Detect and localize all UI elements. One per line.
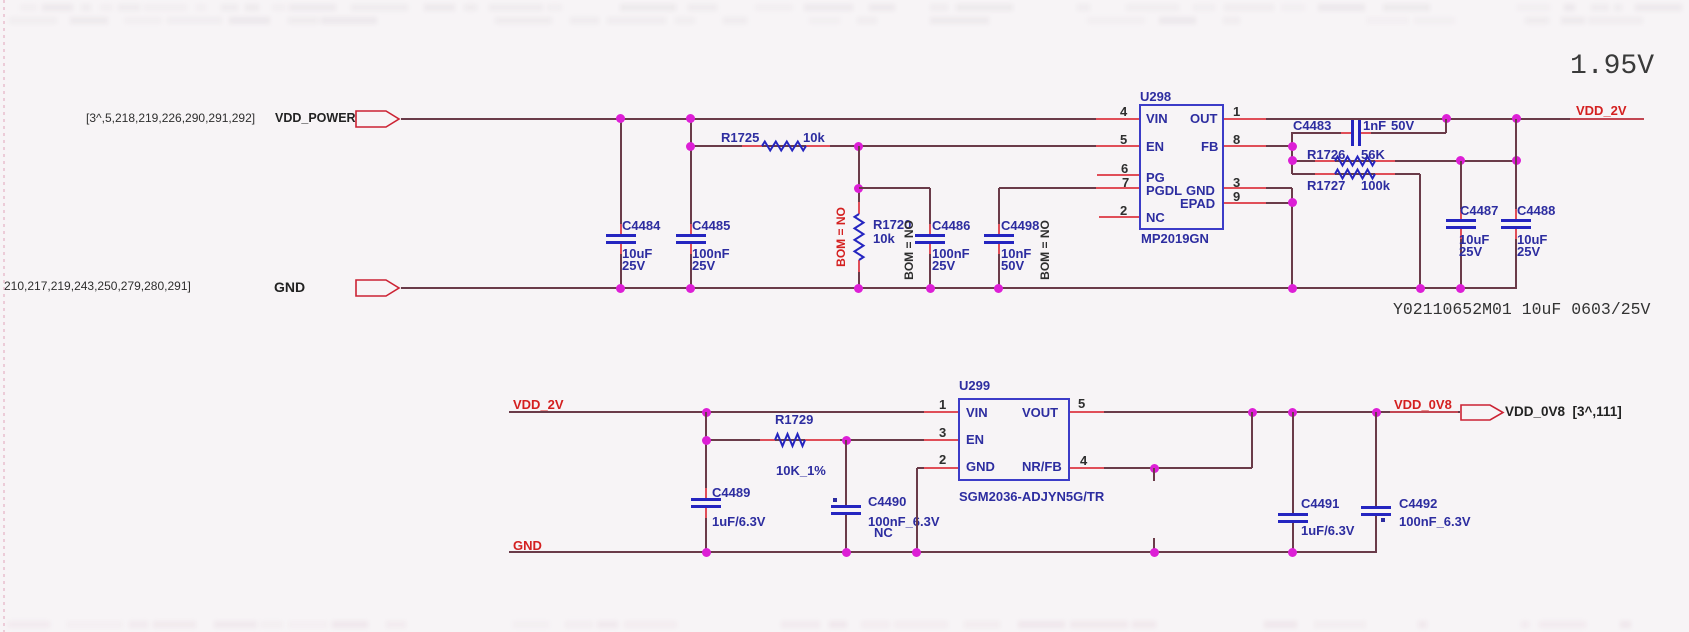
junction C4489 top: [702, 408, 711, 417]
label U299: [959, 378, 990, 393]
value C4486 100nF: [932, 246, 970, 261]
port name GND: [274, 279, 305, 295]
pin number 9: [1233, 189, 1240, 204]
value C4490 100nF_6.3V: [868, 514, 940, 529]
label C4498: [1001, 218, 1039, 233]
resistor R1725 stub right: [806, 145, 830, 147]
pin stub U299 pin1 VIN: [924, 411, 958, 413]
pin number 6: [1121, 161, 1128, 176]
label BOM=NO red R1720: [840, 236, 842, 238]
wire PGDL line: [999, 187, 1139, 189]
wire C4483 left: [1292, 132, 1352, 134]
pin stub U298 pin9 EPAD: [1224, 202, 1266, 204]
wire OUT rail: [1224, 118, 1644, 120]
pin number 1: [1233, 104, 1240, 119]
decor left dotted border: [3, 0, 5, 632]
value C4490 NC: [874, 525, 893, 540]
wire C4484 vertical lower: [620, 244, 622, 288]
net label VDD_0V8 red: [1394, 397, 1452, 412]
pin name GND U299: [966, 459, 995, 474]
value C4489 1uF/6.3V: [712, 514, 765, 529]
wire C4486 vertical: [929, 188, 931, 234]
wire VOUT rail: [1070, 411, 1460, 413]
junction EPAD at column: [1288, 198, 1297, 207]
wire VDD_POWER rail: [401, 118, 1139, 120]
capacitor C4486: [929, 224, 931, 234]
wire pin2 column down: [916, 468, 918, 552]
wire stub above gnd at 1154: [1153, 538, 1155, 552]
label C4490: [868, 494, 906, 509]
value R1725 10k: [803, 130, 825, 145]
junction R1727 bottom: [1416, 284, 1425, 293]
pin stub U298 pin1 OUT: [1224, 118, 1266, 120]
voltage note 1.95V: [1570, 51, 1654, 82]
label C4492: [1399, 496, 1437, 511]
capacitor C4483: [1341, 132, 1351, 134]
capacitor C4498: [998, 224, 1000, 234]
wire GND column U298: [1291, 188, 1293, 288]
wire R1720 column lower: [858, 260, 860, 288]
resistor R1729 stub right: [805, 439, 840, 441]
junction R1726 at C4488: [1512, 156, 1521, 165]
pin number 2: [1120, 203, 1127, 218]
wire red segment under VDD_0V8 label: [1390, 411, 1458, 413]
resistor R1725 stub left: [742, 145, 762, 147]
label SGM2036: [959, 489, 1104, 504]
junction pin2 column bottom: [912, 548, 921, 557]
junction C4491 bottom: [1288, 548, 1297, 557]
junction VOUT at C4492: [1372, 408, 1381, 417]
junction C4484 bottom: [616, 284, 625, 293]
junction OUT at C4483 branch: [1442, 114, 1451, 123]
pin stub U298 pin4 VIN: [1096, 118, 1139, 120]
label C4486: [932, 218, 970, 233]
wire pin9 to column: [1266, 202, 1292, 204]
net label VDD_2V bottom: [513, 397, 564, 412]
wire C4485 vertical: [690, 119, 692, 234]
pin stub U298 pin8 FB: [1224, 145, 1266, 147]
wire R1720 column upper: [858, 146, 860, 214]
wire R1727 line: [1292, 173, 1420, 175]
pin name NR/FB U299: [1022, 459, 1062, 474]
wire FB column upper: [1291, 132, 1293, 174]
pin number 4 U299: [1080, 453, 1087, 468]
junction C4489 bottom: [702, 548, 711, 557]
wire pin3 to column: [1266, 187, 1292, 189]
wire pin4 column up: [1251, 412, 1253, 468]
wire C4486 vertical lower: [929, 244, 931, 288]
capacitor C4490: [831, 505, 861, 508]
label MP2019GN: [1141, 231, 1209, 246]
pin number 3: [1233, 175, 1240, 190]
pin name FB: [1201, 139, 1218, 154]
label R1729: [775, 412, 813, 427]
value C4498 10nF: [1001, 246, 1031, 261]
junction FB at column: [1288, 142, 1297, 151]
pin name EPAD: [1180, 196, 1215, 211]
wire red segment under VDD_2V label: [1570, 118, 1644, 120]
label C4484: [622, 218, 660, 233]
resistor R1720 stub bottom: [858, 260, 860, 272]
pin number 5 U299: [1078, 396, 1085, 411]
wire C4490 vertical lower: [845, 515, 847, 552]
wire EN branch down: [705, 412, 707, 440]
port name VDD_0V8: [1505, 404, 1622, 419]
resistor R1729 stub left: [760, 439, 775, 441]
label C4485: [692, 218, 730, 233]
junction VOUT at pin4 column: [1248, 408, 1257, 417]
pin stub U298 pin5 EN: [1096, 145, 1139, 147]
capacitor C4485: [690, 224, 692, 234]
wire C4489 vertical lower: [705, 508, 707, 552]
label R1726: [1307, 147, 1345, 162]
value C4491 1uF/6.3V: [1301, 523, 1354, 538]
resistor R1727 stub left: [1315, 173, 1335, 175]
wire VDD_2V rail bottom: [509, 411, 958, 413]
junction EN at C4485: [686, 142, 695, 151]
value R1720 10k: [873, 231, 895, 246]
wire C4488 vertical: [1515, 119, 1517, 219]
wire C4485 vertical lower: [690, 244, 692, 288]
value R1726 56K: [1361, 147, 1385, 162]
wire EN line bottom: [706, 439, 958, 441]
junction EN at R1720 column: [854, 142, 863, 151]
value C4483 50V: [1391, 118, 1414, 133]
wire C4483 up to rail: [1445, 119, 1447, 133]
junction C4484 top: [616, 114, 625, 123]
label C4483: [1293, 118, 1331, 133]
resistor R1726 stub right: [1375, 160, 1395, 162]
label R1720: [873, 217, 911, 232]
capacitor C4487: [1460, 209, 1462, 219]
wire C4492 vertical: [1375, 412, 1377, 506]
wire branch to C4486: [859, 187, 930, 189]
wire C4491 vertical: [1292, 412, 1294, 513]
junction R1726 at column: [1288, 156, 1297, 165]
resistor R1727 stub right: [1375, 173, 1395, 175]
wire GND rail top: [401, 287, 1517, 289]
junction C4487 bottom: [1456, 284, 1465, 293]
junction C4490 top: [842, 436, 851, 445]
wire pin2 to column: [917, 467, 958, 469]
value R1729 10K_1%: [776, 463, 826, 478]
capacitor C4489: [705, 488, 707, 498]
wire GND rail bottom: [509, 551, 1377, 553]
pin name VIN U299: [966, 405, 988, 420]
wire C4489 vertical: [705, 412, 707, 498]
resistor R1720 stub top: [858, 202, 860, 214]
value C4484 10uF: [622, 246, 652, 261]
label BOM=NO dark C4498: [1044, 249, 1046, 251]
pin stub U298 pin7 PGDL: [1096, 187, 1139, 189]
wire C4483 right: [1361, 132, 1446, 134]
wire C4498 vertical: [998, 188, 1000, 234]
wire EN line: [691, 145, 1139, 147]
net list label left gnd: [4, 279, 191, 293]
wire stub below pin4 node: [1153, 468, 1155, 481]
label U298: [1140, 89, 1171, 104]
pin stub U299 pin5 VOUT: [1070, 411, 1104, 413]
wire C4491 vertical lower: [1292, 523, 1294, 552]
junction EN branch: [702, 436, 711, 445]
wire FB to column: [1224, 145, 1292, 147]
pin name EN: [1146, 139, 1164, 154]
value C4492 100nF_6.3V: [1399, 514, 1471, 529]
wire C4484 vertical: [620, 119, 622, 234]
value C4484 25V: [622, 258, 645, 273]
junction C4486 bottom: [926, 284, 935, 293]
net label GND bottom: [513, 538, 542, 553]
pin number 4: [1120, 104, 1127, 119]
value R1727 100k: [1361, 178, 1390, 193]
junction GND column bottom: [1288, 284, 1297, 293]
pin stub U298 pin2 NC: [1099, 216, 1139, 218]
value C4485 100nF: [692, 246, 730, 261]
junction C4485 top: [686, 114, 695, 123]
junction R1720 top y188: [854, 184, 863, 193]
value C4483 1nF: [1363, 118, 1386, 133]
label C4487: [1460, 203, 1498, 218]
value C4498 50V: [1001, 258, 1024, 273]
wire C4487 vertical: [1460, 161, 1462, 219]
op-amp U298 box: [1139, 104, 1224, 230]
wire R1726 line: [1292, 160, 1516, 162]
pin name PG: [1146, 170, 1165, 185]
pin stub U298 pin6 PG: [1097, 174, 1139, 176]
pin stub U299 pin3 EN: [924, 439, 958, 441]
value C4488 10uF: [1517, 232, 1547, 247]
value C4488 25V: [1517, 244, 1540, 259]
junction OUT at C4488 column: [1512, 114, 1521, 123]
resistor R1726 stub left: [1315, 160, 1335, 162]
pin name GND right: [1186, 183, 1215, 198]
junction C4485 bottom: [686, 284, 695, 293]
wire C4492 vertical lower: [1375, 516, 1377, 552]
decor top noise band: [0, 0, 1, 1]
capacitor C4491: [1278, 513, 1308, 516]
capacitor C4488: [1515, 209, 1517, 219]
capacitor C4492: [1361, 506, 1391, 509]
decor bottom noise band: [0, 0, 1, 1]
pin name NC: [1146, 210, 1165, 225]
pin name EN U299: [966, 432, 984, 447]
value C4485 25V: [692, 258, 715, 273]
part note Y02110652M01: [1393, 300, 1650, 319]
value C4487 10uF: [1459, 232, 1489, 247]
wire pin4 line: [1070, 467, 1252, 469]
pin number 8: [1233, 132, 1240, 147]
wire R1727 down: [1419, 174, 1421, 288]
op-amp U299 box: [958, 398, 1070, 481]
junction R1720 bottom: [854, 284, 863, 293]
pin number 1 U299: [939, 397, 946, 412]
pin number 7: [1122, 175, 1129, 190]
capacitor C4484: [620, 224, 622, 234]
junction C4498 bottom: [994, 284, 1003, 293]
label BOM=NO dark C4486: [908, 249, 910, 251]
pin name VIN: [1146, 111, 1168, 126]
label C4491: [1301, 496, 1339, 511]
port name VDD_POWER: [275, 111, 356, 125]
wire C4490 vertical: [845, 440, 847, 505]
net label VDD_2V top: [1576, 103, 1627, 118]
pin stub U298 pin3 GND: [1224, 187, 1266, 189]
junction pin4 node: [1150, 464, 1159, 473]
value C4487 25V: [1459, 244, 1482, 259]
label R1725: [721, 130, 759, 145]
label R1727: [1307, 178, 1345, 193]
label C4488: [1517, 203, 1555, 218]
junction R1726 at C4487: [1456, 156, 1465, 165]
junction C4490 bottom: [842, 548, 851, 557]
pin stub U299 pin4 NRFB: [1070, 467, 1104, 469]
junction VOUT at C4491: [1288, 408, 1297, 417]
pin number 2 U299: [939, 452, 946, 467]
net list label left top: [86, 111, 255, 125]
value C4486 25V: [932, 258, 955, 273]
pin number 5: [1120, 132, 1127, 147]
wire C4498 vertical lower: [998, 244, 1000, 288]
pin number 3 U299: [939, 425, 946, 440]
pin name PGDL: [1146, 183, 1182, 198]
junction gnd at 1154: [1150, 548, 1159, 557]
wire C4487 vertical lower: [1460, 229, 1462, 288]
pin name VOUT U299: [1022, 405, 1058, 420]
wire C4488 vertical lower: [1515, 229, 1517, 288]
pin stub U299 pin2 GND: [924, 467, 958, 469]
label C4489: [712, 485, 750, 500]
pin name OUT: [1190, 111, 1217, 126]
